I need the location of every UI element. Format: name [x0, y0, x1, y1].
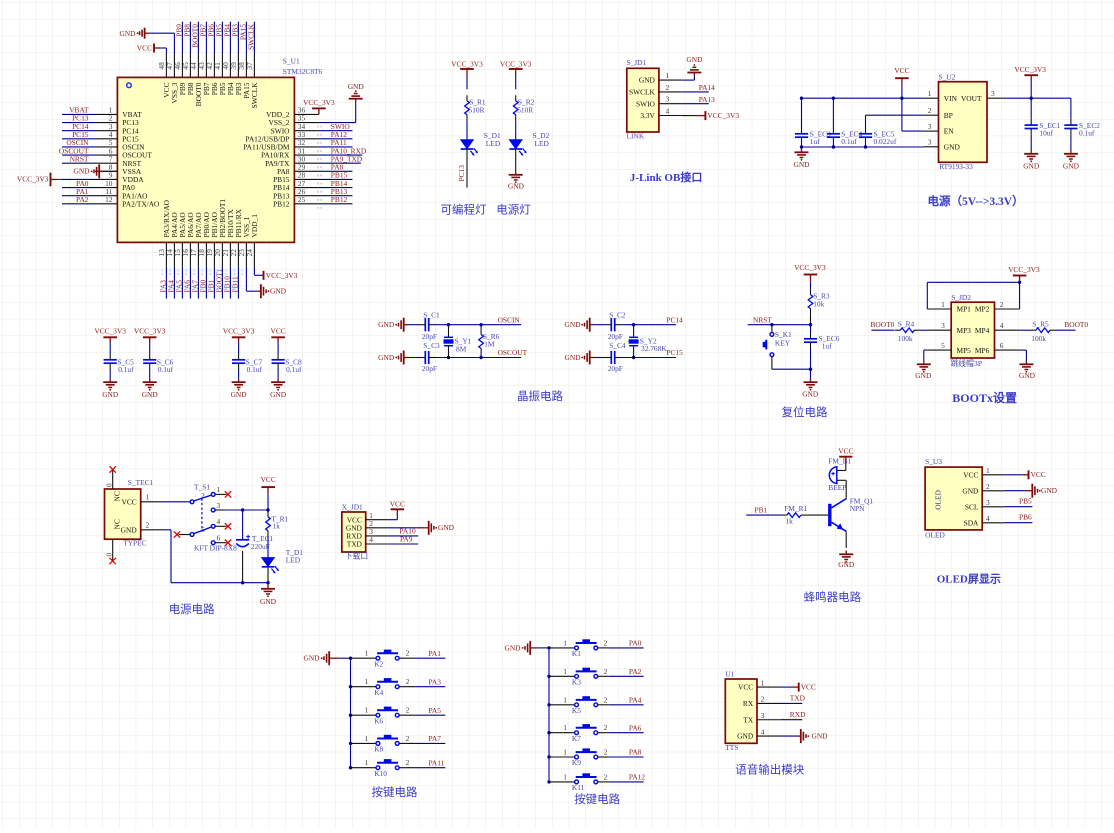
svg-text:GND: GND — [802, 390, 819, 399]
pin 0 NC bottom — [112, 539, 114, 560]
wire EN — [901, 98, 903, 131]
capacitor S_EC6 1uf — [810, 325, 812, 333]
svg-text:NRST: NRST — [753, 316, 772, 325]
wire — [388, 519, 397, 521]
svg-text:1: 1 — [365, 734, 369, 743]
pin 33 PA12/USB/DP — [294, 138, 319, 140]
wire — [319, 122, 356, 124]
svg-text:GND: GND — [686, 55, 703, 64]
pin 26 PB13 — [294, 195, 319, 197]
wire VIN rail — [802, 97, 924, 99]
pin 5 stub — [179, 534, 191, 536]
pin 3 RXD — [366, 535, 388, 537]
svg-text:3: 3 — [941, 321, 945, 330]
svg-text:BEEP: BEEP — [828, 483, 846, 492]
pin 28 PB15 — [294, 178, 319, 180]
svg-text:S_U1: S_U1 — [283, 57, 300, 66]
wire — [1004, 506, 1032, 508]
svg-text:TYPEC: TYPEC — [123, 539, 146, 548]
wire — [1070, 98, 1072, 119]
pin 38 PA15 — [245, 54, 247, 78]
svg-text:GND: GND — [378, 320, 395, 329]
wire BP — [866, 114, 924, 116]
capacitor S_EC3 1uf — [801, 98, 803, 127]
svg-text:2: 2 — [761, 695, 765, 704]
wire — [682, 91, 709, 93]
wire NRST — [748, 324, 811, 326]
svg-text:3: 3 — [928, 138, 932, 147]
svg-text:1: 1 — [563, 695, 567, 704]
svg-text:K4: K4 — [374, 688, 383, 697]
push button K4 — [351, 686, 377, 688]
wire — [1020, 329, 1031, 331]
svg-text:NC: NC — [113, 491, 122, 501]
svg-text:K6: K6 — [374, 716, 383, 725]
svg-text:PA14: PA14 — [699, 83, 715, 92]
wire — [267, 536, 269, 557]
pin 3 TX — [757, 719, 781, 721]
wire — [62, 113, 95, 115]
svg-text:5: 5 — [941, 341, 945, 350]
svg-text:0.1uf: 0.1uf — [1079, 128, 1095, 137]
push button K1 — [549, 647, 575, 649]
wire — [920, 329, 928, 331]
capacitor S_EC5 0.022uf — [859, 128, 872, 144]
svg-text:0: 0 — [104, 553, 113, 557]
svg-text:FM_R1: FM_R1 — [784, 504, 807, 513]
pin 46 PB9 — [181, 54, 183, 78]
svg-text:S_C1: S_C1 — [423, 311, 440, 320]
wire — [215, 509, 225, 511]
svg-text:0.022uf: 0.022uf — [874, 137, 897, 146]
svg-text:VCC_3V3: VCC_3V3 — [134, 327, 166, 336]
pin 1 VCC — [757, 686, 781, 688]
pin 6 OSCOUT — [95, 154, 117, 156]
wire — [242, 551, 244, 583]
wire — [62, 195, 95, 197]
svg-text:1: 1 — [563, 748, 567, 757]
pin 2 PC13 — [95, 122, 117, 124]
svg-text:2: 2 — [406, 734, 410, 743]
svg-text:PC15: PC15 — [666, 348, 683, 357]
svg-text:PA2/TX/AO: PA2/TX/AO — [122, 199, 160, 208]
svg-text:PA2: PA2 — [629, 667, 642, 676]
wire — [253, 22, 255, 54]
svg-text:VCC_3V3: VCC_3V3 — [500, 59, 532, 68]
capacitor S_C5 0.1uf — [104, 354, 117, 370]
svg-text:S_JD1: S_JD1 — [627, 58, 647, 67]
svg-text:VCC: VCC — [801, 683, 816, 692]
svg-text:U1: U1 — [725, 670, 734, 679]
svg-text:T_S1: T_S1 — [194, 483, 210, 492]
ground — [795, 149, 809, 161]
wire — [515, 149, 517, 171]
module S_U3 OLED — [925, 467, 982, 530]
svg-text:3: 3 — [928, 122, 932, 131]
wire — [62, 146, 95, 148]
svg-text:0.1uf: 0.1uf — [158, 365, 174, 374]
pin 25 PB12 — [294, 203, 319, 205]
ground — [103, 378, 117, 390]
pin 4 TXD — [366, 543, 388, 545]
wire — [319, 203, 353, 205]
svg-text:K1: K1 — [572, 649, 581, 658]
svg-text:2: 2 — [406, 706, 410, 715]
svg-text:3: 3 — [986, 498, 990, 507]
wire — [319, 170, 353, 172]
svg-text:K5: K5 — [572, 706, 581, 715]
svg-text:2: 2 — [604, 723, 608, 732]
svg-text:6: 6 — [217, 533, 221, 542]
svg-text:GND: GND — [348, 82, 365, 91]
pin 1 VBAT — [95, 113, 117, 115]
capacitor T_EC1 220uF polarized — [242, 510, 244, 540]
svg-text:2: 2 — [604, 748, 608, 757]
wire — [901, 84, 903, 98]
svg-text:PC14: PC14 — [666, 315, 683, 324]
wire — [781, 719, 803, 721]
pin 1 VCC — [366, 519, 388, 521]
svg-text:VCC: VCC — [963, 470, 978, 479]
ground — [581, 318, 593, 332]
wire — [515, 120, 517, 140]
svg-text:0.1uf: 0.1uf — [841, 137, 857, 146]
svg-text:S_TEC1: S_TEC1 — [128, 478, 154, 487]
wire — [837, 470, 846, 472]
svg-text:按键电路: 按键电路 — [372, 785, 418, 799]
svg-text:GND: GND — [102, 390, 119, 399]
wire — [594, 324, 606, 326]
svg-text:PC13: PC13 — [457, 165, 466, 182]
wire — [1030, 135, 1032, 150]
wire — [435, 357, 521, 359]
pin 1 VCC — [141, 501, 164, 503]
svg-text:电源电路: 电源电路 — [169, 602, 215, 616]
svg-text:1uf: 1uf — [822, 342, 832, 351]
pin 2 MP2 — [995, 308, 1020, 310]
wire — [109, 343, 111, 354]
svg-text:MP4: MP4 — [975, 326, 990, 335]
svg-text:VCC: VCC — [738, 683, 753, 692]
pin 34 SWIO — [294, 130, 319, 132]
capacitor S_C7 0.1uf — [232, 354, 245, 370]
ground — [522, 641, 534, 655]
svg-text:可编程灯: 可编程灯 — [441, 203, 487, 217]
svg-text:VCC_3V3: VCC_3V3 — [1008, 265, 1040, 274]
svg-text:4: 4 — [986, 514, 990, 523]
wire — [277, 370, 279, 379]
svg-text:OLED屏显示: OLED屏显示 — [937, 572, 1001, 585]
svg-text:GND: GND — [793, 160, 810, 169]
pin 4 3.3V — [659, 115, 682, 117]
svg-text:20pF: 20pF — [422, 364, 437, 373]
svg-text:10uf: 10uf — [1039, 128, 1053, 137]
capacitor S_C4 20pF — [605, 351, 621, 364]
svg-text:100k: 100k — [898, 334, 913, 343]
svg-text:VCC: VCC — [137, 43, 152, 52]
crystal S_Y2 32.768K — [633, 325, 635, 338]
svg-text:2: 2 — [146, 521, 150, 530]
capacitor S_C8 0.1uf — [272, 354, 285, 370]
svg-text:TTS: TTS — [725, 743, 738, 752]
svg-text:0.1uf: 0.1uf — [286, 365, 302, 374]
svg-text:GND: GND — [1019, 371, 1036, 380]
ground — [91, 164, 103, 178]
svg-text:VCC: VCC — [390, 500, 405, 509]
svg-text:PA2: PA2 — [76, 195, 89, 204]
svg-text:K9: K9 — [572, 758, 581, 767]
pin 0 NC top — [112, 470, 114, 490]
capacitor S_C1 20pF — [419, 318, 435, 331]
pin 19 PB1/AO — [213, 242, 215, 267]
wire — [319, 130, 353, 132]
wire bus — [548, 648, 550, 782]
ground — [1026, 490, 1029, 492]
ground — [349, 90, 363, 102]
wire — [837, 479, 846, 481]
wire — [109, 370, 111, 379]
wire — [229, 22, 231, 54]
LED S_D2 — [509, 140, 526, 156]
wire — [399, 742, 415, 744]
svg-text:SDA: SDA — [964, 518, 979, 527]
svg-text:3.3V: 3.3V — [640, 111, 655, 120]
ground — [395, 318, 407, 332]
wire — [1004, 474, 1021, 476]
svg-text:GND: GND — [270, 287, 287, 296]
wire — [165, 267, 167, 299]
svg-text:510R: 510R — [517, 105, 533, 114]
svg-text:VCC: VCC — [121, 497, 136, 506]
pin 2 BP — [923, 114, 938, 116]
pin 2 SWCLK — [659, 91, 682, 93]
svg-text:STM32C8T6: STM32C8T6 — [283, 67, 323, 76]
pin 10 PA0 — [95, 187, 117, 189]
pin 27 PB14 — [294, 187, 319, 189]
ground — [321, 651, 333, 665]
svg-text:OSCOUT: OSCOUT — [498, 348, 528, 357]
svg-text:2: 2 — [406, 677, 410, 686]
pin 4 SDA — [982, 522, 1004, 524]
svg-text:MP5: MP5 — [957, 346, 972, 355]
wire — [173, 267, 175, 299]
capacitor S_C6 0.1uf — [143, 354, 156, 370]
svg-text:GND: GND — [508, 182, 525, 191]
svg-text:TXD: TXD — [347, 540, 363, 549]
svg-text:GND: GND — [915, 371, 932, 380]
svg-text:1uf: 1uf — [810, 137, 820, 146]
pin 1 GND — [659, 79, 682, 81]
ground — [687, 64, 701, 76]
svg-text:6: 6 — [1000, 341, 1004, 350]
wire — [781, 735, 797, 737]
svg-text:3: 3 — [666, 95, 670, 104]
wire — [237, 22, 239, 54]
svg-text:PA12: PA12 — [629, 773, 645, 782]
wire — [181, 267, 183, 299]
svg-text:8M: 8M — [456, 345, 467, 354]
svg-text:S_C3: S_C3 — [423, 341, 440, 350]
pin 41 PB5 — [221, 54, 223, 78]
resistor S_R5 100k — [1031, 328, 1056, 333]
svg-text:PA5: PA5 — [429, 706, 442, 715]
wire — [62, 187, 95, 189]
power VCC — [153, 44, 155, 53]
svg-text:GND: GND — [1041, 486, 1058, 495]
wire MP1-MP2 loop — [926, 282, 928, 309]
svg-text:1: 1 — [666, 71, 670, 80]
svg-text:4: 4 — [761, 727, 765, 736]
svg-text:下载口: 下载口 — [345, 551, 368, 561]
svg-text:VCC: VCC — [270, 327, 285, 336]
wire — [150, 32, 174, 34]
crystal S_Y1 8M — [448, 325, 450, 338]
pin 1 stub — [215, 493, 226, 495]
push button K11 — [549, 781, 575, 783]
svg-text:GND: GND — [378, 353, 395, 362]
svg-text:20pF: 20pF — [608, 364, 623, 373]
svg-text:GND: GND — [737, 732, 754, 741]
wire — [237, 267, 239, 299]
svg-text:MP2: MP2 — [975, 305, 990, 314]
push button K8 — [351, 742, 377, 744]
svg-text:TX: TX — [743, 715, 754, 724]
svg-text:3: 3 — [991, 89, 995, 98]
svg-text:12: 12 — [105, 195, 113, 204]
svg-text:20pF: 20pF — [608, 332, 623, 341]
svg-text:PA1: PA1 — [429, 649, 442, 658]
svg-text:2: 2 — [928, 106, 932, 115]
pin 6 MP6 — [995, 349, 1020, 351]
svg-text:0: 0 — [104, 483, 113, 487]
svg-text:20pF: 20pF — [422, 332, 437, 341]
svg-text:OLED: OLED — [925, 531, 945, 540]
svg-text:GND: GND — [564, 320, 581, 329]
svg-text:GND: GND — [944, 142, 961, 151]
pin 35 VSS_2 — [294, 122, 319, 124]
svg-text:1: 1 — [365, 649, 369, 658]
svg-text:1: 1 — [761, 678, 765, 687]
pin 11 PA1/AO — [95, 195, 117, 197]
wire — [399, 657, 415, 659]
svg-text:VCC_3V3: VCC_3V3 — [94, 327, 126, 336]
svg-text:PA6: PA6 — [629, 723, 642, 732]
svg-text:OLED: OLED — [934, 489, 943, 509]
svg-text:S_U3: S_U3 — [925, 457, 942, 466]
resistor FM_R1 1k — [781, 513, 806, 518]
wire — [924, 349, 928, 351]
wire — [221, 22, 223, 54]
push button K3 — [549, 675, 575, 677]
wire — [62, 162, 95, 164]
svg-text:100k: 100k — [1031, 334, 1046, 343]
pin 36 VDD_2 — [294, 113, 319, 115]
push button K5 — [549, 704, 575, 706]
ground — [395, 351, 407, 365]
push button K9 — [549, 756, 575, 758]
capacitor S_EC4 0.1uf — [832, 98, 834, 127]
svg-text:VCC_3V3: VCC_3V3 — [707, 111, 739, 120]
svg-text:GND: GND — [73, 167, 90, 176]
wire — [319, 138, 353, 140]
svg-text:1: 1 — [986, 466, 990, 475]
pin 14 PA4/AO — [173, 242, 175, 267]
svg-text:2: 2 — [1000, 300, 1004, 309]
push button K2 — [351, 657, 377, 659]
wire — [388, 527, 417, 529]
wire — [267, 567, 269, 585]
ground — [143, 378, 157, 390]
svg-text:TXD: TXD — [790, 694, 806, 703]
svg-text:VCC: VCC — [894, 66, 909, 75]
svg-text:S_C2: S_C2 — [609, 311, 626, 320]
svg-text:2: 2 — [986, 482, 990, 491]
wire — [149, 343, 151, 354]
pin 42 PB6 — [213, 54, 215, 78]
wire — [319, 146, 353, 148]
wire — [845, 531, 847, 548]
svg-text:蜂鸣器电路: 蜂鸣器电路 — [804, 590, 862, 604]
svg-text:GND: GND — [270, 390, 287, 399]
wire — [213, 22, 215, 54]
pin 37 SWCLK — [253, 54, 255, 78]
wire — [339, 657, 351, 659]
ground — [417, 527, 425, 529]
wire — [213, 267, 215, 299]
wire — [245, 22, 247, 54]
wire — [205, 267, 207, 299]
ground — [1019, 361, 1033, 373]
wire — [62, 122, 95, 124]
pin 5 MP5 — [927, 349, 951, 351]
wire — [57, 178, 63, 180]
pin 8 VSSA — [95, 170, 117, 172]
ground — [1064, 150, 1078, 162]
wire — [267, 494, 269, 511]
wire VOUT — [1003, 97, 1071, 99]
svg-text:1: 1 — [365, 706, 369, 715]
svg-text:MP3: MP3 — [957, 326, 972, 335]
wire — [319, 187, 353, 189]
wire — [621, 357, 676, 359]
wire — [62, 154, 95, 156]
pin 31 PA10/RX — [294, 154, 319, 156]
connector S_JD2 jumper — [951, 302, 994, 358]
svg-text:VCC: VCC — [838, 447, 853, 456]
wire — [399, 714, 415, 716]
svg-text:K7: K7 — [572, 734, 581, 743]
svg-text:KFT DIP-8X8: KFT DIP-8X8 — [194, 543, 237, 552]
ground — [917, 361, 931, 373]
svg-text:2: 2 — [604, 695, 608, 704]
pin 4 GND — [757, 735, 781, 737]
pin 3 VOUT — [987, 97, 1003, 99]
wire — [1004, 522, 1032, 524]
svg-text:晶振电路: 晶振电路 — [517, 389, 563, 403]
ground — [797, 729, 809, 743]
svg-text:32.768K: 32.768K — [641, 344, 667, 353]
wire — [1056, 329, 1076, 331]
wire GND return — [164, 529, 171, 531]
wire — [229, 267, 231, 299]
svg-text:2: 2 — [604, 772, 608, 781]
svg-text:VCC_3V3: VCC_3V3 — [451, 59, 483, 68]
wire — [408, 324, 420, 326]
svg-text:0.1uf: 0.1uf — [247, 365, 263, 374]
connector S_JD1 J-Link — [627, 68, 659, 132]
connector X_JD1 — [342, 512, 366, 552]
pin 15 PA5/AO — [181, 242, 183, 267]
